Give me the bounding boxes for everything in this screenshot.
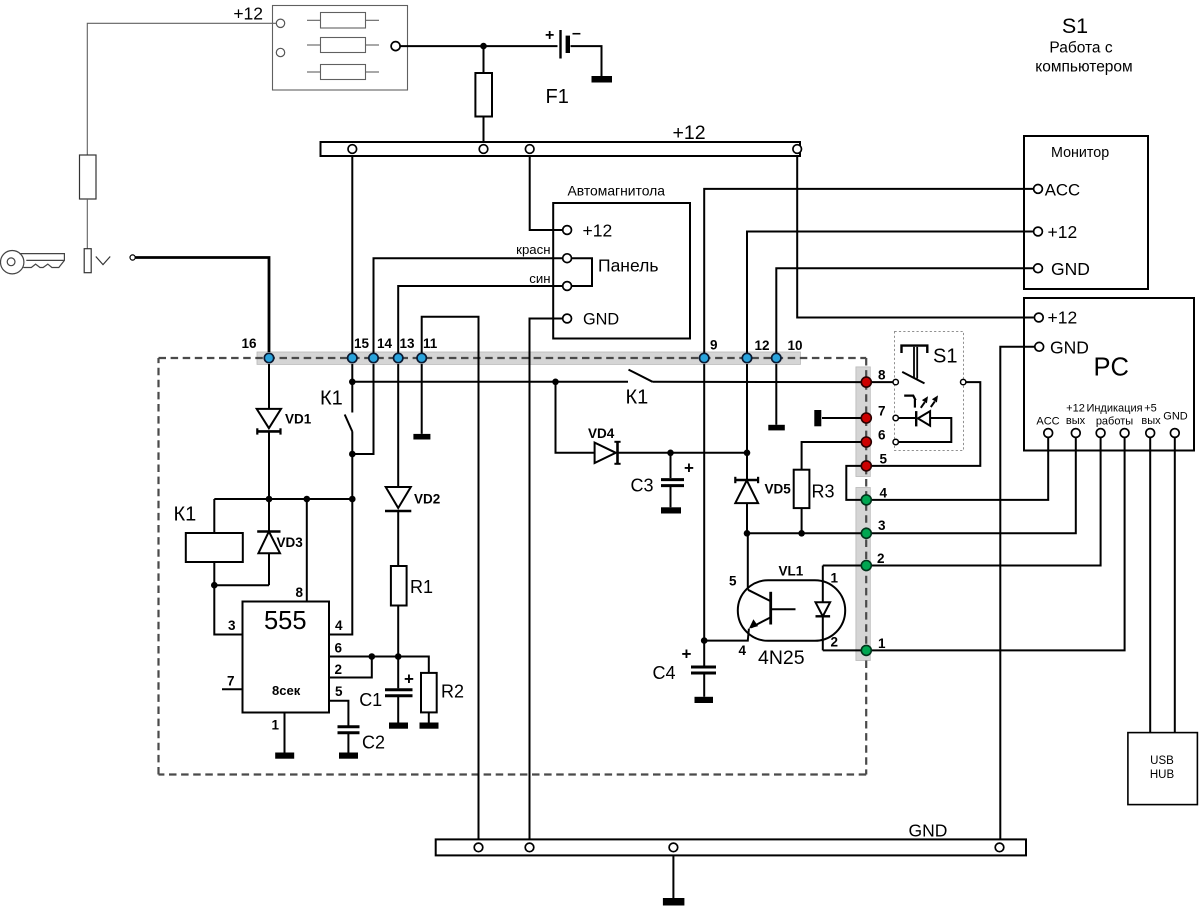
wire син to pin 13 [398, 286, 563, 358]
resistor R3 [794, 470, 810, 508]
diode VD3 (flyback, cathode up) [257, 532, 280, 554]
wire pin 3 row [747, 532, 862, 534]
wire fuse to ignition switch (thin) [86, 199, 88, 249]
svg-text:4: 4 [739, 643, 747, 658]
svg-text:син: син [529, 271, 550, 286]
wire pin 12 up to Монитор +12 [747, 232, 1034, 359]
wire K1 row right part to pin 8 [653, 381, 862, 383]
GND bus terminal circles [474, 843, 483, 852]
wire C4 to ground [703, 674, 705, 697]
svg-text:4: 4 [335, 618, 343, 633]
Монитор box [1024, 136, 1148, 289]
PC bottom pin Индикация-2 [1120, 429, 1129, 438]
ground (pin 7, sideways bar) [814, 410, 821, 426]
blue pin 13 [394, 353, 403, 362]
wire pin 6 row to R3 [802, 442, 862, 470]
wire node to C1 [397, 657, 399, 689]
svg-text:10: 10 [788, 338, 803, 353]
PC bottom pin ACC [1044, 429, 1053, 438]
svg-text:+12: +12 [673, 122, 706, 144]
ground (pin 10) [768, 425, 785, 431]
wire VD5 top [746, 453, 748, 480]
svg-text:9: 9 [710, 338, 718, 353]
wire fuse box output to battery [400, 45, 558, 47]
head unit pin син [563, 282, 572, 291]
svg-text:К1: К1 [626, 387, 649, 409]
blue pin 11 [417, 353, 426, 362]
svg-text:11: 11 [423, 336, 438, 351]
fuse F1 body [475, 73, 492, 117]
svg-text:3: 3 [878, 518, 886, 533]
wire ignition switch to pin 16 (thick) [135, 258, 269, 353]
relay contact K1 (left, vertical) blade [345, 415, 353, 433]
wire VD3 to relay node [214, 584, 269, 586]
relay contact K1 (middle, horizontal) blade [629, 370, 653, 382]
IC 555 box [243, 602, 330, 713]
wire +12 bus to head unit +12 pin [530, 156, 563, 230]
svg-text:Автомагнитола: Автомагнитола [568, 183, 666, 199]
head unit box (Автомагнитола) [553, 203, 690, 339]
+12 bus terminal circles [348, 145, 357, 154]
wire R2 bottom to ground [428, 712, 430, 722]
svg-text:14: 14 [377, 336, 393, 351]
gray connector bus (right, pins 8..5) [856, 367, 870, 477]
PC bottom pin Индикация-1 [1096, 429, 1105, 438]
green pin 3 [861, 528, 871, 538]
pushbutton S1 cap bracket [902, 346, 928, 353]
ground (C1) [389, 723, 408, 729]
svg-text:F1: F1 [546, 86, 569, 108]
Монитор pin ACC [1034, 185, 1043, 194]
S1 LED pin7 contact circle [893, 415, 898, 420]
red pin 5 [861, 461, 871, 471]
diode VD4 [595, 442, 621, 464]
ignition switch blade [96, 257, 110, 265]
wire PC +5вых to USB HUB [1149, 437, 1151, 732]
wire opto LED cathode (pin 2) to bus pin 1 [823, 649, 862, 651]
svg-text:VD2: VD2 [414, 492, 440, 507]
svg-text:C2: C2 [362, 733, 385, 753]
wire K1 contact to junction with pin 14 [351, 432, 353, 499]
ground (GND bus) [663, 898, 685, 906]
wire LED to pin 6 contact [899, 418, 952, 442]
svg-text:1: 1 [831, 571, 839, 586]
svg-text:6: 6 [878, 428, 886, 443]
svg-text:15: 15 [354, 336, 370, 351]
PC bottom pin +12вых [1071, 429, 1080, 438]
+12 bus bar [321, 142, 801, 156]
svg-text:Работа с: Работа с [1049, 40, 1112, 57]
PC pin GND [1035, 342, 1044, 351]
S1 LED pin6 contact circle [893, 439, 898, 444]
wire pin 10 up to Монитор GND [776, 268, 1034, 358]
S1 indicator LED diode (cathode left) [916, 411, 930, 426]
svg-text:+12: +12 [1048, 308, 1078, 328]
junction R3/pin3 row [798, 530, 805, 537]
junction VD5/pin3 row [744, 530, 751, 537]
svg-text:S1: S1 [1062, 14, 1088, 38]
svg-text:GND: GND [1050, 338, 1089, 358]
horizontal wire relay node [214, 498, 352, 500]
junction C3 [667, 450, 674, 457]
wire pin 1 to PC Индикация-2 [866, 437, 1124, 650]
svg-text:8сек: 8сек [272, 683, 301, 698]
junction R1/C1 node [395, 653, 402, 660]
gray connector bus (right, pins 4..1) [856, 488, 870, 661]
ignition switch output contact circle [130, 255, 135, 260]
wire node to 555 pin 3 [214, 585, 242, 634]
wire 555 pin 4 up to K1 node [329, 499, 352, 635]
svg-text:вых: вых [1141, 415, 1161, 427]
svg-text:Панель: Панель [598, 256, 658, 276]
relay coil K1 [186, 533, 243, 562]
ground (C3) [661, 507, 681, 513]
svg-text:8: 8 [878, 368, 886, 383]
diode VD2 [385, 487, 411, 511]
svg-text:GND: GND [1163, 411, 1188, 423]
S1 right contact circle [961, 379, 966, 384]
svg-text:HUB: HUB [1150, 769, 1175, 781]
diode VD1 [257, 409, 281, 435]
svg-text:+12: +12 [583, 221, 613, 241]
opto LED vertical wire [822, 566, 824, 651]
S1 left contact circle [893, 379, 898, 384]
wire S1 to pin 5 [872, 382, 981, 466]
capacitor C4 (polar) [691, 667, 716, 673]
Монитор pin GND [1034, 264, 1043, 273]
ground (R2) [420, 723, 439, 729]
ignition switch contact bar [84, 249, 91, 273]
svg-text:+: + [682, 645, 692, 664]
junction K1 row / VD4 branch [552, 379, 559, 386]
svg-text:ACC: ACC [1036, 416, 1059, 428]
PC bottom pin GND2 [1170, 429, 1179, 438]
svg-text:VD1: VD1 [285, 412, 312, 427]
dashed enclosure box of main unit [159, 358, 867, 775]
svg-text:5: 5 [880, 452, 888, 467]
wire VD2 to R1 [397, 511, 399, 566]
svg-text:GND: GND [909, 821, 948, 841]
wire 555 pin 1 to ground [284, 713, 286, 753]
wire pin 12 down to node [746, 364, 748, 453]
PC pin +12 [1034, 313, 1043, 322]
svg-text:Индикация: Индикация [1086, 403, 1142, 415]
svg-text:1: 1 [878, 636, 886, 651]
svg-text:GND: GND [583, 311, 619, 329]
red pin 7 [861, 413, 871, 423]
resistor R1 [391, 566, 407, 606]
opto phototransistor [748, 590, 796, 629]
red pin 6 [861, 437, 871, 447]
wire pin 10 to ground [775, 364, 777, 425]
junction relay/VD3 node [211, 582, 218, 589]
wire pin 15 to K1 contact [351, 364, 353, 413]
zener diode VD5 (cathode up) [735, 477, 758, 503]
head unit pin красн [563, 254, 572, 263]
wire K1 row left part [352, 381, 628, 383]
svg-text:555: 555 [264, 607, 307, 635]
resistor R2 [421, 673, 437, 713]
svg-text:R3: R3 [812, 482, 835, 502]
green pin 4 [861, 495, 871, 505]
blue pin 15 [348, 353, 357, 362]
blue pin 14 [369, 353, 378, 362]
pushbutton S1 blade [902, 372, 924, 384]
junction pin15/K1 row [349, 379, 356, 386]
optocoupler VL1 body [738, 580, 845, 641]
wire pin 11 to ground [421, 364, 423, 434]
capacitor C3 (polar) [661, 480, 684, 486]
wire pin 8 to S1 [872, 381, 893, 383]
ground (C2) [339, 753, 358, 759]
fuse box (car fuse panel, top left) [273, 6, 408, 91]
svg-text:2: 2 [335, 662, 343, 677]
Монитор pin +12 [1034, 227, 1043, 236]
blue pin 9 [700, 353, 709, 362]
pushbutton S1 stem [913, 347, 915, 379]
wire junction down to F1 [483, 46, 485, 73]
capacitor C2 [338, 727, 360, 733]
fuse box pin (top-left) [276, 19, 284, 27]
opto LED diode [816, 602, 831, 616]
svg-text:К1: К1 [174, 504, 197, 526]
svg-text:GND: GND [1051, 259, 1090, 279]
svg-text:6: 6 [335, 641, 343, 656]
svg-text:VD5: VD5 [765, 482, 792, 497]
svg-text:7: 7 [227, 674, 235, 689]
svg-text:USB: USB [1150, 755, 1174, 767]
wire R3 bottom to pin3 row [801, 508, 803, 533]
svg-text:16: 16 [241, 336, 257, 351]
svg-text:VL1: VL1 [779, 564, 804, 579]
red pin 8 [861, 377, 871, 387]
wire VD4 to pin12 node [618, 452, 748, 454]
svg-text:+12: +12 [1066, 403, 1085, 415]
svg-text:4: 4 [880, 486, 888, 501]
wire pin 9 down to C4 node [703, 364, 705, 641]
wire pin 13 to VD2 [397, 364, 399, 487]
fuse box pin (right, output) [391, 42, 400, 51]
svg-text:+: + [404, 670, 414, 689]
svg-text:5: 5 [335, 684, 343, 699]
svg-text:1: 1 [271, 718, 279, 733]
wire 555 pin 8 [306, 499, 308, 602]
svg-text:компьютером: компьютером [1035, 59, 1132, 76]
wire head unit GND down to GND bus [530, 319, 563, 840]
wire pin 3 to PC +12вых [866, 437, 1076, 533]
wire F1 to +12 bus [483, 117, 485, 143]
svg-text:12: 12 [755, 338, 770, 353]
junction K1/node [349, 496, 356, 503]
wire PC GND2 to USB HUB [1174, 437, 1176, 732]
svg-text:+12: +12 [233, 4, 263, 24]
blue pin 10 [772, 353, 781, 362]
svg-text:2: 2 [831, 635, 839, 650]
PC box [1024, 298, 1194, 451]
ignition key icon [1, 251, 65, 274]
wire pin 11 up and down to GND bus [422, 317, 479, 840]
wire battery to ground [571, 46, 602, 77]
wire opto emitter (pin 4) to C4 node [704, 629, 749, 641]
blue pin 12 [742, 353, 751, 362]
svg-text:–: – [572, 25, 581, 42]
blue pin 16 [264, 353, 273, 362]
svg-text:5: 5 [729, 574, 737, 589]
wire opto LED anode (pin 1) to bus pin 2 [823, 565, 862, 567]
wire pin 4 to PC ACC [872, 437, 1049, 500]
wire pins 5-4 jog [846, 466, 866, 500]
svg-text:+5: +5 [1144, 403, 1157, 415]
svg-text:работы: работы [1096, 416, 1133, 428]
junction pin2/pin6 [369, 653, 376, 660]
wire C1 to ground [397, 697, 399, 723]
wire pin 9 up to Монитор ACC [704, 189, 1034, 358]
svg-text:VD3: VD3 [277, 535, 304, 550]
wire +12 bus to pin 15 [351, 156, 353, 358]
ground (C4) [695, 697, 714, 703]
wire pin 7 to side ground [822, 417, 862, 419]
svg-text:R2: R2 [441, 682, 464, 702]
head unit pin +12 [563, 226, 572, 235]
wire opto collector (pin 5) up [747, 533, 749, 590]
junction VD5/pin12 node [744, 450, 751, 457]
battery G1 plates [559, 30, 561, 59]
fuse box pin (bottom-left) [276, 48, 284, 56]
ground (pin 11) [413, 434, 430, 440]
svg-text:3: 3 [228, 618, 236, 633]
wire pin 16 to VD1 [268, 364, 270, 409]
wire R1 to node 6/2 [397, 606, 399, 657]
wire C3 to ground [670, 487, 672, 508]
wire VD5 bottom to pin3 row [746, 503, 748, 533]
junction K1/pin14 [349, 451, 356, 458]
gray connector bus (top, pins 16..10) [257, 352, 801, 364]
wire pin 14 down [352, 364, 373, 454]
ground (battery) [592, 76, 613, 83]
wire VD3 bottom to node [268, 553, 270, 585]
wire 555 pin 2 up to pin 6 [329, 657, 372, 678]
svg-text:+: + [545, 27, 554, 44]
svg-text:PC: PC [1094, 354, 1129, 382]
svg-text:+12: +12 [1048, 222, 1078, 242]
wire 555 pin 5 to C2 [329, 701, 348, 726]
wire down to VD4 row [556, 382, 595, 453]
svg-text:К1: К1 [320, 388, 343, 410]
ground (555 pin 1) [275, 753, 294, 759]
wire VD1 to junction [268, 431, 270, 499]
wire relay coil bottom [213, 562, 215, 585]
green pin 2 [861, 561, 871, 571]
wire +12 bus to PC +12 [797, 156, 1034, 318]
wire C4 top [703, 641, 705, 666]
wire pin 7 contact to LED [899, 417, 917, 419]
bracket Панель [572, 258, 592, 286]
wire C3 top [670, 453, 672, 478]
svg-text:VD4: VD4 [588, 426, 615, 441]
svg-text:8: 8 [295, 585, 303, 600]
PC bottom pin +5вых [1146, 429, 1155, 438]
green pin 1 [861, 645, 871, 655]
dotted box S1 assembly [895, 332, 964, 451]
wire GND bus to earth [672, 855, 674, 898]
junction C4 node [701, 637, 708, 644]
svg-text:13: 13 [400, 336, 416, 351]
S1 actuator arrow [904, 396, 915, 401]
svg-text:7: 7 [878, 404, 886, 419]
svg-text:вых: вых [1066, 415, 1086, 427]
wire PC GND to GND bus [1000, 347, 1035, 840]
svg-text:C4: C4 [653, 663, 676, 683]
junction VD1/node [266, 496, 273, 503]
ignition fuse body [80, 155, 97, 199]
wire node down to relay coil [213, 499, 215, 533]
USB HUB box [1128, 733, 1198, 805]
svg-text:R1: R1 [410, 577, 433, 597]
wire VD3 top [268, 499, 270, 532]
wire красн to pin 14 [374, 258, 563, 358]
wire 555 pin 7 stub [222, 688, 243, 690]
svg-text:C1: C1 [359, 690, 382, 710]
junction battery/F1 [480, 43, 487, 50]
svg-text:красн: красн [516, 242, 550, 257]
capacitor C1 (polar) [385, 690, 413, 696]
svg-text:+: + [684, 459, 694, 478]
LED emission arrows (S1 indicator) [921, 395, 938, 407]
svg-text:S1: S1 [933, 346, 957, 368]
wire fuse box to ignition fuse (thin) [87, 23, 276, 155]
svg-text:Монитор: Монитор [1051, 145, 1109, 161]
wire 555 pin 6 to R2 [329, 657, 429, 673]
GND bus bar (bottom) [436, 839, 1026, 855]
svg-text:C3: C3 [631, 476, 654, 496]
svg-text:4N25: 4N25 [758, 647, 805, 669]
wire C2 to ground [347, 734, 349, 753]
wire pin 2 to PC Индикация-1 [866, 437, 1100, 566]
svg-text:2: 2 [877, 551, 885, 566]
svg-text:ACC: ACC [1045, 181, 1080, 200]
junction 555 pin8/node [304, 496, 311, 503]
head unit pin GND [563, 314, 572, 323]
